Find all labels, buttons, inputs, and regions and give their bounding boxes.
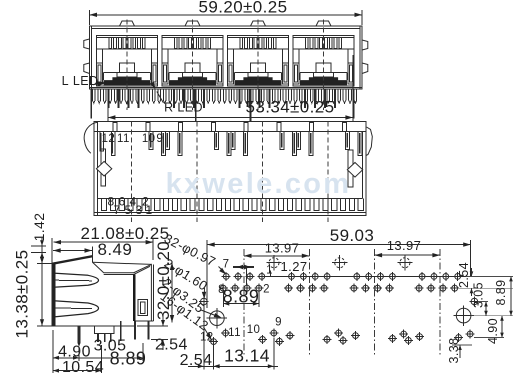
side view top ridge (52, 255, 93, 265)
footprint port 2 signal pads phi0.97 (289, 274, 295, 280)
bottom view castellated standoff edge (98, 197, 363, 199)
front view RJ45 port 2 (162, 35, 223, 86)
side view latch finger slots (56, 273, 99, 287)
footprint mounting hole phi3.25 right (456, 308, 471, 323)
port 1 centerline (126, 20, 128, 111)
svg-text:7: 7 (223, 259, 230, 271)
port 2 centerline (192, 20, 194, 111)
svg-text:13.38±0.25: 13.38±0.25 (12, 250, 31, 339)
bottom view body outline (94, 122, 366, 216)
svg-text:9: 9 (275, 317, 282, 329)
footprint hole phi1.6 right (471, 298, 478, 305)
svg-text:53.34±0.25: 53.34±0.25 (246, 98, 335, 117)
svg-text:L LED: L LED (62, 74, 99, 88)
svg-text:9: 9 (156, 133, 163, 145)
svg-text:59.03: 59.03 (330, 226, 375, 245)
bottom view left spring tab (84, 122, 97, 153)
svg-text:3.05: 3.05 (471, 282, 485, 308)
svg-text:59.20±0.25: 59.20±0.25 (199, 0, 288, 17)
svg-text:8.89: 8.89 (494, 280, 508, 306)
svg-text:R LED: R LED (164, 101, 203, 115)
front view RJ45 port 4 (293, 35, 354, 86)
front view left side tabs (84, 39, 90, 49)
bottom view connector pins (149, 131, 153, 149)
svg-text:10.54: 10.54 (62, 359, 104, 376)
side view shield seam (133, 275, 136, 322)
footprint port 1 signal pads phi0.97 (223, 274, 229, 280)
front view solder legs (108, 89, 110, 108)
port 3 centerline (257, 20, 259, 111)
front view RJ45 port 3 (228, 35, 289, 86)
svg-text:11: 11 (117, 133, 130, 145)
svg-text:4.90: 4.90 (486, 318, 500, 344)
svg-text:kxwele.com: kxwele.com (166, 168, 352, 200)
front view body outline (90, 26, 363, 89)
svg-text:1: 1 (266, 265, 273, 277)
svg-text:13.97: 13.97 (265, 241, 300, 256)
footprint port centerlines (243, 249, 245, 356)
svg-text:10: 10 (142, 133, 156, 145)
front view top mounting bumps (120, 21, 135, 26)
svg-text:5: 5 (124, 203, 131, 217)
footprint hole phi1.6 left (201, 298, 208, 305)
bottom view right orientation diamond (347, 163, 362, 178)
front view long mounting legs (90, 89, 92, 119)
side view front face (52, 262, 56, 326)
svg-text:2: 2 (263, 284, 270, 296)
bottom view port1 LED pins (100, 131, 103, 151)
svg-text:3.38: 3.38 (447, 338, 461, 364)
svg-text:1.42: 1.42 (31, 213, 47, 242)
svg-text:3: 3 (135, 203, 142, 217)
front view RJ45 port 1 (97, 35, 158, 86)
footprint port 3 signal pads phi0.97 (354, 274, 360, 280)
port 4 centerline (323, 20, 325, 111)
svg-text:8.49: 8.49 (98, 240, 133, 259)
svg-text:1: 1 (145, 203, 152, 217)
svg-text:11: 11 (228, 327, 241, 339)
svg-text:12: 12 (102, 133, 116, 145)
footprint port 4 signal pads phi0.97 (419, 274, 425, 280)
side view body profile (51, 263, 53, 326)
footprint LED pads phi1.12 (211, 339, 217, 345)
side view solder tab detail (138, 300, 147, 316)
front view shield fingers (93, 89, 96, 103)
svg-text:13.14: 13.14 (224, 346, 270, 366)
svg-text:2.54: 2.54 (155, 337, 188, 354)
front view right side tabs (362, 40, 368, 50)
bottom view left polarizing slot (101, 149, 106, 186)
svg-text:1.27: 1.27 (281, 259, 308, 274)
bottom view top band tabs (113, 123, 117, 132)
svg-text:13.97: 13.97 (387, 238, 422, 253)
footprint mounting hole phi3.25 left (210, 311, 225, 326)
side view pins (78, 326, 81, 343)
footprint index holes (top row) (269, 258, 279, 268)
svg-text:12: 12 (200, 332, 214, 344)
svg-text:2.54: 2.54 (457, 262, 471, 288)
bottom view port centerlines (131, 122, 133, 223)
bottom view right polarizing slot (348, 150, 353, 187)
svg-text:10: 10 (247, 324, 261, 336)
svg-text:7: 7 (113, 203, 120, 217)
bottom view right spring tab (366, 127, 372, 156)
bottom view left orientation diamond (96, 161, 111, 176)
